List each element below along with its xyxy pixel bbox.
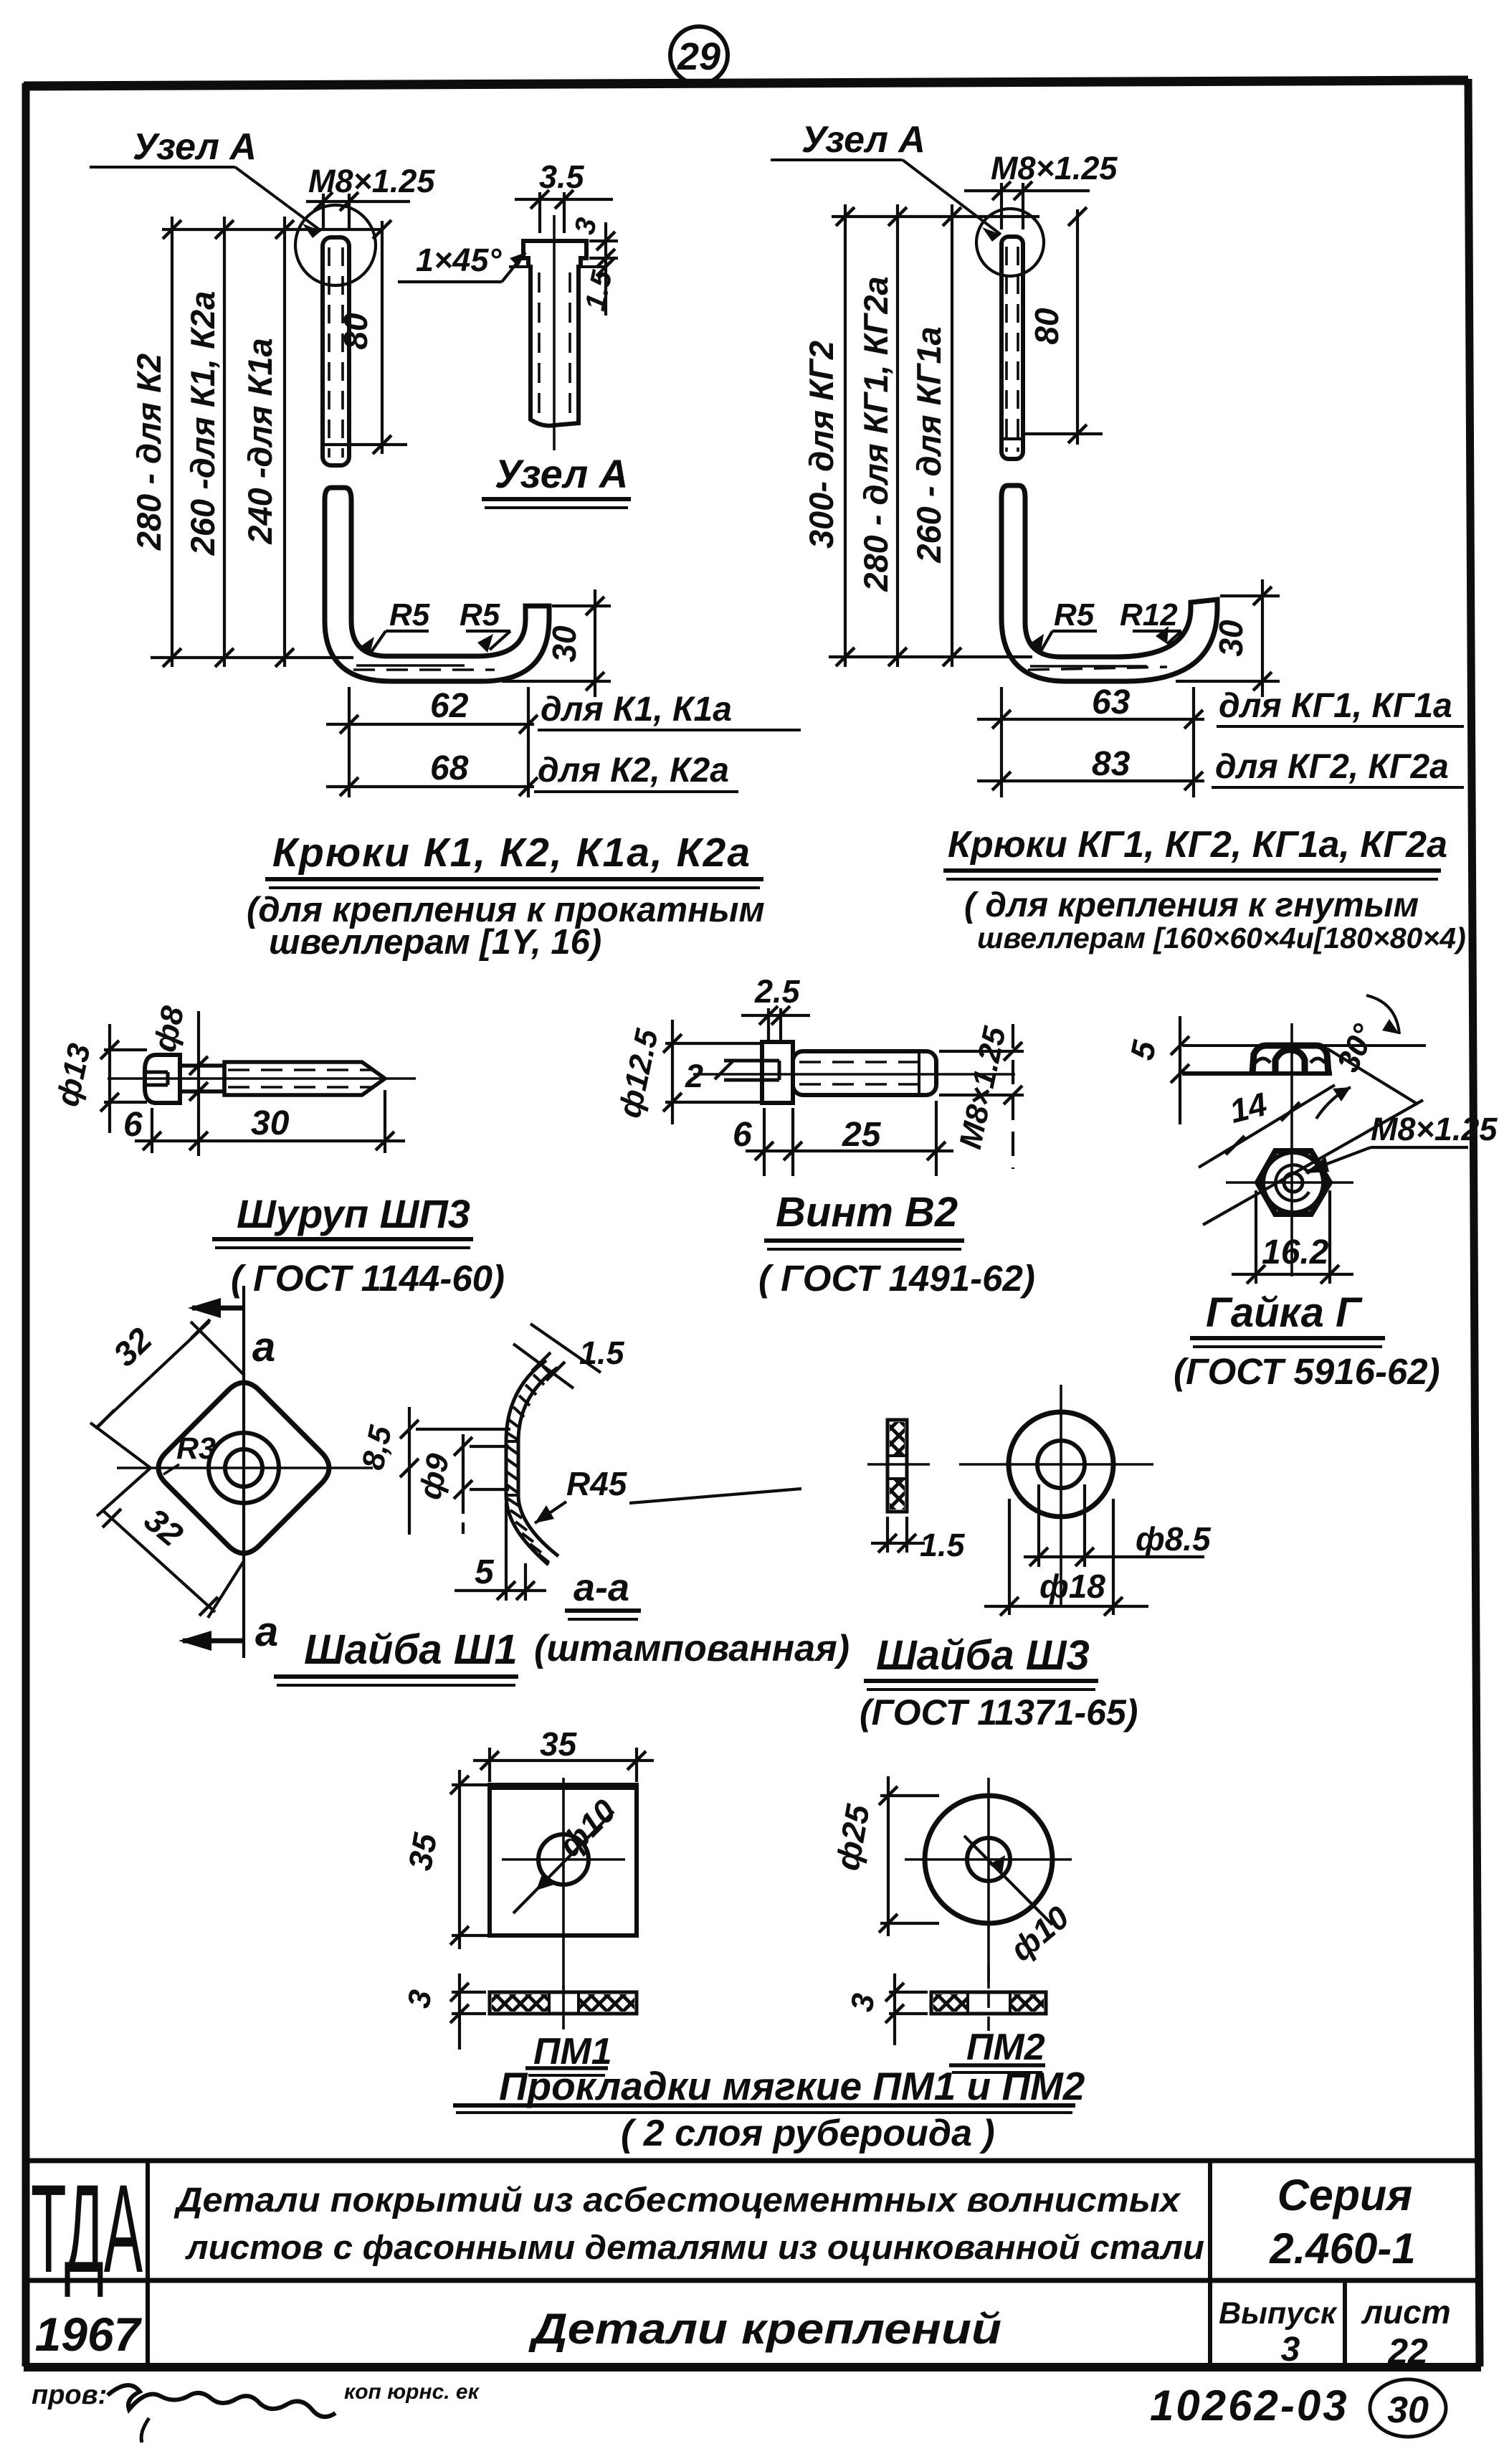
M8x1.25 dimension right: [939, 1024, 1024, 1169]
f10 leader diagonal: [513, 1811, 614, 1913]
svg-text:30: 30: [1212, 620, 1250, 657]
svg-text:Винт В2: Винт В2: [776, 1189, 958, 1236]
small side dims 3 and 1.5: [589, 222, 618, 316]
bottom extension baseline: [151, 656, 353, 659]
hole circle: [1037, 1441, 1085, 1488]
svg-text:1.5: 1.5: [920, 1527, 966, 1563]
leaders: [1041, 631, 1181, 651]
svg-text:ТДА: ТДА: [31, 2159, 143, 2299]
svg-text:ф18: ф18: [1039, 1568, 1105, 1605]
dimension f18: [984, 1499, 1148, 1615]
dimension line M8: [306, 194, 410, 229]
svg-text:1.5: 1.5: [579, 1335, 625, 1371]
svg-text:Гайка Г: Гайка Г: [1206, 1289, 1363, 1336]
svg-text:35: 35: [401, 1829, 444, 1873]
svg-text:для КГ1, КГ1а: для КГ1, КГ1а: [1219, 687, 1452, 725]
svg-text:280 - для КГ1, КГ2а: 280 - для КГ1, КГ2а: [857, 276, 895, 592]
svg-text:( ГОСТ 1144-60): ( ГОСТ 1144-60): [231, 1258, 505, 1299]
svg-text:80: 80: [337, 313, 374, 350]
leader wire to detail circle: [90, 167, 321, 231]
side centerline: [867, 1463, 930, 1466]
bolt head: [762, 1042, 793, 1103]
thickness 1.5: [871, 1517, 925, 1553]
svg-text:240 -для К1а: 240 -для К1а: [241, 338, 279, 544]
section arrow top: [192, 1306, 244, 1311]
svg-text:R12: R12: [1120, 597, 1178, 632]
svg-text:260 - для КГ1а: 260 - для КГ1а: [910, 326, 948, 563]
svg-text:10262-03: 10262-03: [1150, 2382, 1349, 2430]
shank neck: [180, 1066, 224, 1091]
svg-text:Выпуск: Выпуск: [1219, 2296, 1338, 2331]
svg-text:6: 6: [733, 1116, 752, 1154]
svg-text:для К2, К2а: для К2, К2а: [538, 752, 729, 790]
dimension 62 line: [326, 723, 534, 726]
svg-text:для К1, К1а: для К1, К1а: [541, 691, 732, 729]
svg-text:68: 68: [430, 749, 469, 787]
hole circle: [225, 1449, 262, 1487]
dimension verticals 300/280/260: [845, 204, 952, 667]
page number circle 29: [670, 27, 728, 84]
svg-text:листов с фасонными деталями: листов с фасонными деталями из оцинкован…: [185, 2228, 1204, 2266]
head slot: [724, 1061, 779, 1080]
svg-text:( 2 слоя рубероида ): ( 2 слоя рубероида ): [621, 2113, 995, 2154]
svg-text:83: 83: [1092, 745, 1131, 783]
svg-text:(ГОСТ 11371-65): (ГОСТ 11371-65): [860, 1692, 1138, 1733]
svg-text:1×45°: 1×45°: [416, 242, 502, 278]
svg-text:а-а: а-а: [574, 1566, 629, 1609]
thread dashes: [228, 1068, 373, 1071]
diamond washer plan: [158, 1383, 329, 1553]
svg-text:25: 25: [842, 1116, 882, 1154]
svg-text:R5: R5: [460, 597, 500, 632]
title block texts: [31, 2159, 1451, 2371]
screw head: [145, 1055, 180, 1103]
dashed centerline of hook bottom: [1028, 667, 1167, 670]
thickness 1.5 note: [513, 1344, 574, 1388]
svg-text:300- для КГ2: 300- для КГ2: [802, 341, 840, 549]
detail circle marker A: [295, 205, 376, 285]
section strip: [931, 1992, 1046, 2014]
washer plan outer circle: [1009, 1412, 1113, 1517]
svg-text:30: 30: [251, 1104, 290, 1142]
svg-text:R5: R5: [389, 597, 430, 632]
square plate plan: [490, 1785, 637, 1935]
dimension line M8: [964, 183, 1090, 229]
svg-text:Узел А: Узел А: [133, 126, 257, 168]
svg-text:3.5: 3.5: [539, 158, 585, 195]
dia 8 dimension: [197, 1011, 200, 1156]
svg-text:2.5: 2.5: [754, 973, 801, 1010]
centerline: [693, 1073, 1015, 1076]
inner thin line of bottom run: [1030, 665, 1147, 668]
centerline: [108, 1077, 416, 1080]
centerlines: [959, 1463, 1153, 1466]
svg-text:швеллерам [160×60×4и[180×80×4): швеллерам [160×60×4и[180×80×4): [977, 921, 1466, 954]
svg-text:29: 29: [677, 35, 720, 78]
dimension 30: [1176, 579, 1280, 697]
svg-text:М8×1.25: М8×1.25: [308, 163, 435, 199]
svg-text:лист: лист: [1361, 2293, 1450, 2331]
svg-text:Узел А: Узел А: [495, 451, 628, 496]
svg-text:Крюки КГ1, КГ2, КГ1а, КГ2а: Крюки КГ1, КГ2, КГ1а, КГ2а: [948, 824, 1447, 866]
dimension 5: [1179, 1016, 1181, 1124]
svg-text:ф8.5: ф8.5: [1136, 1520, 1212, 1558]
curved washer strip: [506, 1360, 548, 1565]
R5 leader arrows: [370, 631, 510, 654]
hook body KG bent rod: [1001, 485, 1217, 681]
svg-text:пров:: пров:: [32, 2380, 107, 2410]
svg-text:2: 2: [685, 1058, 703, 1094]
svg-text:для КГ2, КГ2а: для КГ2, КГ2а: [1215, 748, 1449, 786]
svg-text:R45: R45: [566, 1465, 628, 1502]
dimension 80: [351, 221, 407, 454]
svg-text:Узел А: Узел А: [801, 119, 925, 161]
svg-text:а: а: [252, 1324, 275, 1370]
svg-text:62: 62: [430, 687, 469, 725]
extension verticals for 62/68: [349, 687, 528, 797]
dimension 30 right of hook: [502, 589, 611, 697]
svg-text:Детали креплений: Детали креплений: [528, 2305, 1001, 2353]
svg-text:80: 80: [1028, 308, 1065, 345]
top extension line: [162, 228, 382, 231]
svg-text:М8×1.25: М8×1.25: [1371, 1111, 1498, 1147]
hole circle: [967, 1838, 1010, 1881]
svg-text:280 - для К2: 280 - для К2: [130, 354, 168, 551]
hole circle: [1284, 1173, 1303, 1192]
thread arc: [1275, 1165, 1309, 1200]
extension verticals for 63/83: [1001, 687, 1194, 797]
dimension 32 upper left: [90, 1322, 244, 1468]
dimension 63: [977, 718, 1204, 721]
section arrow bottom: [183, 1639, 244, 1644]
hook body K1 bent rod: [325, 488, 549, 681]
dome circle: [209, 1433, 279, 1503]
washer plan outer circle: [925, 1796, 1052, 1923]
dia 12.5 dimension: [665, 1020, 760, 1124]
svg-text:3: 3: [1281, 2331, 1300, 2369]
dimension verticals 280/260/240: [172, 217, 285, 667]
diagonal construction line: [1203, 1100, 1423, 1225]
detail stud with cap: [509, 241, 606, 426]
dashed centerline of hook bottom: [353, 668, 495, 671]
stud rod: [1001, 237, 1023, 459]
dimension f8.5: [1024, 1484, 1204, 1567]
svg-text:(штампованная): (штампованная): [534, 1628, 850, 1669]
svg-text:Шайба Ш1: Шайба Ш1: [304, 1626, 518, 1673]
inner thin line of bottom run: [356, 664, 465, 667]
svg-text:30: 30: [546, 625, 583, 663]
section strip: [490, 1992, 637, 2014]
svg-text:R5: R5: [1054, 597, 1095, 632]
dimension 5: [455, 1502, 546, 1601]
svg-text:а: а: [255, 1608, 278, 1655]
stud rod (anchor bolt shank): [323, 237, 349, 465]
svg-text:6: 6: [123, 1106, 143, 1144]
svg-text:Шуруп ШП3: Шуруп ШП3: [237, 1191, 470, 1236]
dimension 83: [977, 780, 1204, 782]
centerlines: [562, 1778, 565, 1989]
svg-text:Детали покрытий из асбестоцем: Детали покрытий из асбестоцементных волн…: [173, 2181, 1182, 2219]
6 / 25 dimension: [746, 1101, 953, 1176]
svg-text:ПМ2: ПМ2: [966, 2027, 1045, 2068]
centerline of stud: [553, 215, 556, 450]
30 degree chamfer note: [1366, 995, 1399, 1034]
svg-text:35: 35: [540, 1725, 578, 1763]
svg-text:Крюки К1, К2, К1а, К2а: Крюки К1, К2, К1а, К2а: [272, 830, 751, 876]
threaded body with gimlet point: [224, 1062, 385, 1095]
nut side profile: [1252, 1046, 1328, 1074]
svg-text:Серия: Серия: [1277, 2171, 1412, 2219]
hole circle: [538, 1834, 589, 1885]
14 dimension diagonal: [1199, 1085, 1335, 1167]
svg-text:16.2: 16.2: [1262, 1233, 1329, 1271]
dimension 8.5: [409, 1407, 510, 1535]
dimension 80: [1025, 209, 1103, 445]
dimension 68 line: [326, 785, 534, 788]
title block: [24, 2161, 1479, 2367]
dimension 32 lower left: [97, 1468, 244, 1618]
dimension 16.2: [1232, 1190, 1353, 1284]
svg-text:коп юрнс. ек: коп юрнс. ек: [344, 2380, 480, 2404]
leader wire: [771, 160, 1001, 234]
bottom annotations: [32, 2379, 1446, 2442]
svg-text:30: 30: [1387, 2389, 1429, 2431]
centerlines of nut: [1290, 1023, 1293, 1276]
svg-text:63: 63: [1092, 683, 1131, 721]
centerlines: [987, 1778, 990, 1989]
f10 leader: [964, 1836, 1052, 1925]
detail circle marker A: [976, 209, 1044, 276]
svg-text:1967: 1967: [35, 2308, 143, 2361]
svg-text:швеллерам [1Y, 16): швеллерам [1Y, 16): [269, 923, 601, 962]
thread dashed lines: [538, 273, 541, 420]
nut side view top line: [1182, 1044, 1426, 1047]
threaded shank: [793, 1051, 936, 1095]
thickness 3: [452, 1973, 486, 2050]
side view bar: [887, 1420, 907, 1512]
svg-text:2.460-1: 2.460-1: [1269, 2224, 1416, 2273]
horizontal centerline: [117, 1466, 373, 1469]
svg-text:Шайба Ш3: Шайба Ш3: [876, 1632, 1090, 1679]
section line a-a vertical: [242, 1286, 245, 1658]
strip hatching: [506, 1366, 553, 1563]
inscribed chamfer circle: [1263, 1152, 1323, 1213]
dimension 35 left: [452, 1770, 487, 1949]
dimension f9: [463, 1434, 509, 1538]
svg-text:(ГОСТ 5916-62): (ГОСТ 5916-62): [1174, 1351, 1440, 1392]
thickness 3: [889, 1973, 928, 2045]
bottom extension baseline: [829, 655, 1032, 658]
head slot: [145, 1072, 168, 1085]
dimension f25: [880, 1776, 939, 1936]
svg-text:R3: R3: [176, 1431, 216, 1466]
dia 13 dimension: [104, 1024, 147, 1133]
top extension line: [832, 215, 1039, 218]
svg-text:Прокладки мягкие ПМ1 и ПМ2: Прокладки мягкие ПМ1 и ПМ2: [499, 2064, 1085, 2108]
svg-text:260 -для К1, К2а: 260 -для К1, К2а: [184, 291, 222, 556]
hex nut plan: [1257, 1151, 1330, 1214]
6 / 30 dimension line: [135, 1090, 405, 1153]
svg-text:22: 22: [1387, 2331, 1428, 2371]
svg-text:( ГОСТ 1491-62): ( ГОСТ 1491-62): [758, 1258, 1035, 1299]
svg-text:( для крепления к гнутым: ( для крепления к гнутым: [964, 886, 1419, 924]
nut side view bottom line: [1182, 1071, 1332, 1076]
svg-text:5: 5: [475, 1553, 495, 1591]
